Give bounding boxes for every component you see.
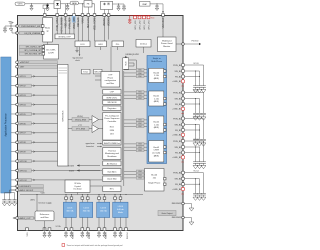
pin PGOOD — [176, 41, 201, 46]
pin label GPO3 — [144, 20, 146, 30]
svg-text:Mode: Mode — [118, 212, 124, 214]
wire osc outputs — [76, 47, 81, 56]
pin FB_B0 — [175, 75, 184, 78]
wire clock to phase box — [95, 47, 111, 80]
svg-text:PLDO2: PLDO2 — [89, 231, 91, 239]
block power sequence controller — [103, 113, 121, 141]
capacitor CB2 — [7, 193, 12, 206]
block seq mux — [123, 56, 129, 70]
block OTP — [103, 90, 121, 95]
svg-text:SW_B3: SW_B3 — [175, 147, 183, 149]
pin label PVIN_SNVS — [57, 17, 59, 30]
red test pin TP2 — [138, 15, 141, 18]
svg-text:PVIN_B0: PVIN_B0 — [173, 65, 182, 67]
pin GND_B4 red — [172, 187, 185, 195]
capacitor COUT_B2a — [193, 136, 198, 146]
block NVM OTP — [55, 34, 75, 39]
svg-text:300 mA: 300 mA — [66, 209, 74, 212]
red test pin TP3 — [143, 15, 146, 18]
node VBACKUP box — [140, 2, 151, 7]
svg-text:PLDO1: PLDO1 — [73, 231, 75, 239]
TVS diode D1 — [46, 4, 49, 11]
pin label VBACKUP — [162, 17, 165, 28]
svg-text:LDO1: LDO1 — [67, 207, 73, 209]
pin label VDD_CORE — [94, 17, 96, 30]
svg-text:REFCAP: REFCAP — [77, 17, 80, 27]
svg-text:EN3: EN3 — [139, 147, 142, 149]
svg-text:XI32K: XI32K — [69, 170, 75, 172]
svg-text:Gain ADC: Gain ADC — [107, 170, 117, 173]
wire internal supply rail — [20, 194, 143, 195]
pins below LDO4 — [114, 218, 128, 231]
pins above LDO2 — [81, 195, 89, 203]
pin REFGND1 — [172, 202, 194, 211]
svg-text:(INT): (INT) — [30, 199, 35, 201]
svg-text:EN2: EN2 — [139, 126, 142, 128]
control strips group 0 — [124, 68, 147, 78]
svg-text:Application Processor: Application Processor — [4, 113, 7, 136]
svg-text:LDO2: LDO2 — [84, 207, 90, 209]
wire FB_B4 sense — [185, 184, 200, 185]
highlighted strip VDDA_1P8 — [72, 16, 76, 23]
pin GND_B1 red — [172, 107, 185, 115]
svg-text:EN/SEQ/LGPIO: EN/SEQ/LGPIO — [126, 54, 140, 56]
capacitor COUT_B0b — [197, 83, 202, 93]
svg-text:EN0: EN0 — [139, 70, 142, 72]
load switch box with diode — [54, 1, 61, 9]
pin SPI_CLK/SDA_SP — [20, 49, 45, 53]
block HFO osc — [95, 41, 107, 47]
svg-text:PVIN_B1: PVIN_B1 — [173, 92, 182, 94]
block wideband power good monitor — [158, 37, 177, 52]
pin PWRON/RESET_MR — [16, 24, 44, 28]
svg-text:VCC0: VCC0 — [193, 63, 199, 65]
pin label LDO2 out — [89, 231, 91, 239]
label EN SEQ — [126, 54, 140, 56]
svg-text:1.1 A: 1.1 A — [154, 74, 159, 77]
capacitor C7 — [3, 25, 11, 32]
wire FB_B0 sense — [185, 76, 200, 77]
pin SW_B1 — [175, 97, 185, 100]
svg-text:Buck1: Buck1 — [154, 96, 160, 98]
block Buck2 — [149, 116, 164, 133]
capacitor CIN_B3 — [201, 159, 206, 169]
svg-text:(AVS): (AVS) — [154, 100, 160, 103]
capacitor COUT_B0a — [193, 83, 198, 93]
svg-text:GPIO2: GPIO2 — [20, 86, 27, 88]
pin SW_B0 — [175, 70, 185, 73]
svg-text:32 kHz: 32 kHz — [74, 183, 80, 185]
svg-text:(to multi): (to multi) — [152, 151, 160, 154]
node VCC0 — [185, 63, 204, 83]
red test cap — [128, 20, 131, 24]
wire FB_B1 sense — [185, 103, 200, 104]
pin nINT — [16, 65, 58, 69]
wire SW_B2 output — [185, 124, 200, 136]
node VCC3 — [185, 139, 204, 159]
pin FB_B3 — [175, 151, 184, 154]
svg-text:Registers: Registers — [108, 107, 117, 110]
svg-text:& SPI: & SPI — [48, 53, 54, 55]
pin PVIN_SNVS — [56, 14, 59, 17]
pin GPIO10 — [11, 159, 58, 163]
block OTP phase configuration mux — [101, 72, 120, 88]
svg-text:GPIO12: GPIO12 — [20, 180, 28, 182]
svg-text:PVIN_B3: PVIN_B3 — [173, 141, 182, 143]
svg-text:VCCA: VCCA — [56, 225, 62, 228]
svg-text:Reference: Reference — [40, 213, 50, 216]
svg-text:1.1 A: 1.1 A — [154, 123, 159, 126]
svg-text:HFO: HFO — [98, 44, 103, 46]
svg-text:VSS: VSS — [27, 232, 29, 237]
label internal supply — [38, 201, 51, 204]
ferrite bead box — [84, 1, 92, 7]
wire osc to rtc — [78, 186, 103, 195]
svg-text:+GND_B4: +GND_B4 — [172, 189, 182, 191]
pin FB_B4 — [175, 183, 184, 186]
svg-text:GPIO3: GPIO3 — [20, 95, 27, 97]
block I2C control — [44, 45, 59, 60]
svg-text:Thermal: Thermal — [108, 149, 116, 152]
block gate output — [158, 211, 176, 216]
svg-text:upper/wrm: upper/wrm — [86, 142, 95, 145]
pins above LDO1 — [65, 195, 73, 203]
block Buck4 single phase — [145, 169, 165, 192]
svg-text:EN_PB_VSENSE: EN_PB_VSENSE — [25, 33, 41, 35]
buffer VTT — [68, 125, 103, 133]
svg-text:PGOOD: PGOOD — [191, 41, 199, 43]
svg-text:Clock Mon: Clock Mon — [107, 179, 118, 181]
svg-text:Wake: Wake — [45, 28, 51, 30]
pin GPIO1 — [11, 75, 58, 79]
pin label VDDIO2 — [109, 17, 111, 26]
capacitor CIN_B1 — [201, 110, 206, 120]
svg-text:GPO_LS4: GPO_LS4 — [148, 20, 150, 30]
svg-text:GPIO1: GPIO1 — [20, 76, 27, 78]
svg-text:VANA: VANA — [81, 17, 84, 24]
svg-text:VTT_SNS: VTT_SNS — [76, 129, 86, 131]
svg-text:NVM CNTL: NVM CNTL — [107, 98, 118, 100]
svg-text:VSYS: VSYS — [18, 4, 24, 6]
svg-text:PVIN_B2: PVIN_B2 — [173, 118, 182, 120]
pin GPIO12 — [11, 178, 102, 182]
svg-text:SHUTDOWN Det: SHUTDOWN Det — [104, 142, 120, 145]
wire demux down — [143, 47, 145, 53]
pins below LDO3 — [98, 218, 106, 231]
label internal clock — [72, 57, 83, 62]
capacitor COUT_B3b — [197, 159, 202, 169]
svg-text:EN4: EN4 — [139, 178, 142, 180]
svg-text:Buck4: Buck4 — [151, 175, 158, 177]
label VCCA bottom — [56, 225, 62, 228]
svg-text:clock: clock — [75, 60, 80, 62]
pin label GPO4 — [148, 20, 150, 30]
svg-text:FB_B3: FB_B3 — [175, 152, 182, 154]
svg-text:+GND_B1: +GND_B1 — [172, 109, 182, 111]
svg-text:GPIO MUX: GPIO MUX — [62, 110, 64, 121]
block WDOG — [94, 69, 103, 74]
pin EN2_WKUP1 — [11, 185, 43, 189]
svg-text:Phase: Phase — [107, 77, 114, 79]
svg-text:+GND_B0: +GND_B0 — [172, 81, 182, 83]
svg-text:Internal supply: Internal supply — [38, 201, 51, 204]
capacitor COUT_B4b — [197, 191, 202, 201]
block thermal monitoring — [103, 148, 121, 160]
wire top pin stubs — [57, 17, 163, 42]
svg-text:VANA: VANA — [72, 2, 78, 5]
svg-text:and Mux: and Mux — [106, 83, 114, 85]
svg-text:VDDA_1P8: VDDA_1P8 — [73, 17, 76, 29]
svg-text:FSM: FSM — [110, 130, 115, 132]
svg-text:EN2: EN2 — [139, 120, 142, 122]
svg-text:EN4: EN4 — [139, 171, 142, 173]
pin label VDDIO1 — [104, 17, 106, 26]
block clock monitor — [103, 176, 121, 182]
capacitor COUT_B2b — [197, 136, 202, 146]
pin label REFCAP — [77, 17, 80, 27]
wire VBAT rail — [150, 3, 164, 13]
block Buck0 — [149, 68, 164, 82]
capacitor COUT_B1b — [197, 110, 202, 120]
capacitor COUT_B3a — [193, 159, 198, 169]
pin VDDA_1P8 — [81, 14, 84, 17]
svg-text:GPIO9: GPIO9 — [20, 152, 27, 154]
control strips group 2 — [124, 119, 147, 129]
svg-text:AD Monitor: AD Monitor — [107, 162, 118, 165]
svg-text:SW_B4: SW_B4 — [175, 179, 183, 181]
red test pin TP4 — [147, 15, 150, 18]
svg-text:XO32K: XO32K — [68, 165, 75, 167]
control strips group 3 — [124, 143, 147, 153]
wire SW_B4 output — [185, 178, 200, 190]
wire FB_B3 sense — [185, 152, 200, 153]
svg-text:+GND_B2: +GND_B2 — [172, 135, 182, 137]
pin GPIO3 — [11, 94, 58, 98]
svg-text:VDD: VDD — [41, 193, 46, 195]
pin SW_B3 — [175, 146, 185, 149]
pin PVIN_B2 — [173, 117, 184, 120]
block LDO4 — [113, 202, 128, 217]
pin GND_B0 red — [172, 80, 185, 88]
capacitor CB1 — [2, 193, 7, 206]
svg-text:GPIO10: GPIO10 — [20, 161, 28, 163]
svg-text:REFGND1: REFGND1 — [172, 203, 182, 205]
output caps LDO2 — [81, 231, 90, 238]
svg-text:Timer: Timer — [83, 72, 88, 74]
svg-text:GPIO8: GPIO8 — [20, 142, 27, 144]
svg-text:lower/set: lower/set — [86, 145, 94, 148]
svg-text:PLDO3: PLDO3 — [106, 231, 108, 239]
svg-text:VCC2: VCC2 — [193, 116, 199, 118]
pin label GPO2 — [139, 20, 141, 30]
svg-text:Wideband: Wideband — [162, 40, 172, 42]
svg-text:Shutdown: Shutdown — [107, 155, 117, 158]
pin SW_B4 — [175, 177, 185, 180]
pin VDD_1P8 — [64, 14, 67, 17]
svg-text:VCC3: VCC3 — [193, 139, 199, 141]
svg-text:FB_B1: FB_B1 — [175, 104, 182, 106]
caption note — [62, 244, 122, 247]
svg-text:(AVS): (AVS) — [154, 77, 160, 80]
svg-text:EN2: EN2 — [139, 123, 142, 125]
svg-text:FB_B4: FB_B4 — [175, 184, 182, 186]
pin label VANA — [81, 17, 84, 24]
block Registers — [103, 106, 121, 111]
svg-text:LFO: LFO — [80, 44, 85, 46]
svg-text:DIG: DIG — [110, 134, 114, 136]
red label test pins — [151, 16, 155, 19]
capacitor CB3 — [12, 193, 17, 206]
svg-text:VCC1: VCC1 — [193, 90, 199, 92]
output caps LDO3 — [97, 231, 106, 238]
wire PLL out — [101, 47, 118, 50]
wire control bus pair — [122, 70, 124, 187]
svg-text:ECO: ECO — [110, 126, 115, 128]
capacitor C2 — [66, 4, 69, 11]
pin REFCAP2 — [87, 14, 90, 17]
pin GPIO7 — [11, 131, 58, 135]
svg-text:Oscillator: Oscillator — [73, 188, 82, 191]
svg-text:Crystal: Crystal — [74, 185, 81, 188]
svg-text:FB_B2: FB_B2 — [175, 130, 182, 132]
capacitor C5 — [155, 4, 158, 11]
svg-text:Controller: Controller — [108, 120, 117, 123]
wire wakeup to i2c — [47, 42, 49, 45]
label VDD — [30, 193, 45, 211]
svg-text:SW_B0: SW_B0 — [175, 71, 183, 73]
pin PVIN_B4 — [173, 171, 184, 174]
pin GND_B2 red — [172, 133, 185, 141]
pin FB_B2 — [175, 129, 184, 132]
svg-text:150 mA: 150 mA — [100, 209, 108, 212]
svg-text:NVM & OTP: NVM & OTP — [59, 37, 72, 39]
svg-text:VCC4: VCC4 — [193, 171, 199, 173]
svg-text:(AVS): (AVS) — [154, 154, 160, 157]
svg-text:VDDQ_SNS: VDDQ_SNS — [75, 119, 87, 121]
svg-text:sns: sns — [181, 162, 184, 164]
svg-text:LDO3: LDO3 — [101, 207, 107, 209]
wire VSYS rail — [25, 3, 95, 4]
svg-text:PWRON/RESET_MR: PWRON/RESET_MR — [21, 26, 41, 28]
pin GPIO2 — [11, 84, 58, 88]
pin GPIO6 — [11, 122, 58, 126]
block ADC monitor — [103, 161, 121, 166]
block GPIO MUX — [58, 64, 69, 166]
svg-text:EN0: EN0 — [139, 76, 142, 78]
pin PVIN_LDO — [73, 14, 76, 17]
pin PVIN_B1 — [173, 91, 184, 94]
svg-text:VBACKUP: VBACKUP — [162, 17, 165, 28]
svg-text:Gate Output: Gate Output — [162, 212, 173, 215]
svg-text:OTP: OTP — [108, 75, 113, 77]
pin label GPO1 — [135, 20, 137, 30]
svg-text:AMUX_OUT: AMUX_OUT — [20, 217, 32, 220]
svg-text:PLDO4: PLDO4 — [127, 231, 129, 239]
svg-text:GPIO11: GPIO11 — [20, 170, 28, 172]
block wake-up control — [43, 18, 53, 43]
block LDO2 — [80, 202, 93, 217]
svg-text:Demux: Demux — [140, 43, 148, 45]
svg-text:EN2/WKUP1: EN2/WKUP1 — [20, 186, 32, 188]
svg-text:Multi-Phase: Multi-Phase — [151, 60, 162, 63]
svg-text:1.1 A: 1.1 A — [154, 97, 159, 100]
capacitor CIN_B4 — [201, 191, 206, 201]
capacitor C1 — [30, 4, 33, 11]
svg-text:GPIO4: GPIO4 — [20, 104, 27, 106]
svg-text:GPO_LS1: GPO_LS1 — [135, 20, 137, 30]
wire EN sense — [12, 29, 17, 33]
svg-text:CNTR: CNTR — [154, 150, 160, 152]
label warm reset — [86, 142, 102, 148]
pin GPIO11 — [11, 169, 102, 173]
block RTC timer — [82, 69, 91, 74]
wire mux to strips — [129, 60, 137, 68]
block multi-phase buck group — [147, 56, 167, 164]
svg-text:sns: sns — [181, 113, 184, 115]
svg-text:configuration: configuration — [105, 79, 116, 82]
svg-text:Power Good: Power Good — [161, 42, 173, 45]
wire drops to top pins — [66, 4, 83, 14]
svg-text:GPO_LS3: GPO_LS3 — [144, 20, 146, 30]
output caps LDO1 — [64, 231, 73, 238]
svg-text:and Bias: and Bias — [40, 217, 48, 219]
wire — [88, 4, 94, 14]
pin label REFCAP2 — [87, 17, 90, 28]
svg-text:Single Phase: Single Phase — [148, 182, 161, 184]
control strips group 1 — [124, 91, 147, 101]
wire FB_B2 sense — [185, 129, 200, 130]
svg-text:4 A Ldo: 4 A Ldo — [117, 208, 125, 211]
pin AMUX_OUT — [13, 216, 35, 220]
block PLL — [112, 41, 124, 47]
buffer VDDQ — [68, 116, 103, 124]
capacitor CIN_B0 — [201, 83, 206, 93]
svg-text:EN4: EN4 — [139, 174, 142, 176]
svg-text:EN1: EN1 — [139, 92, 142, 94]
pins above LDO3 — [98, 195, 106, 203]
block LDO3 — [97, 202, 110, 217]
capacitor COUT_B4a — [193, 191, 198, 201]
PMIC chip body U1 — [18, 16, 184, 231]
pin label LDO4 out — [127, 231, 129, 239]
pin AGND — [43, 221, 46, 238]
pin EN_PB_VSENSE — [16, 31, 44, 35]
svg-text:Buck2: Buck2 — [154, 122, 160, 124]
wire XTAL in arrow — [68, 164, 100, 167]
svg-text:PVIN_B4: PVIN_B4 — [173, 173, 182, 175]
wire backup caps — [14, 185, 17, 187]
pin PVIN_B3 — [173, 140, 184, 143]
capacitor COUT_B1a — [193, 110, 198, 120]
svg-text:sns: sns — [181, 86, 184, 88]
wire XTAL out arrow — [69, 169, 100, 172]
pin PVIN_B0 — [173, 64, 184, 67]
wire container squares B0 — [164, 70, 166, 78]
svg-text:EN0: EN0 — [139, 73, 142, 75]
wire VDDIO drops — [104, 3, 124, 13]
pin label VDDA_1P8 — [73, 17, 76, 29]
pin SPI_CS/SCL_SP — [20, 45, 45, 49]
svg-text:WDOG: WDOG — [94, 72, 101, 74]
pin GPIO4 — [11, 103, 58, 107]
svg-text:FB_B0: FB_B0 — [175, 76, 182, 78]
block Buck3 — [149, 141, 164, 163]
wire cap tops — [5, 190, 16, 193]
capacitor C3 — [117, 4, 120, 11]
svg-text:GPIO5: GPIO5 — [20, 114, 27, 116]
block Buck1 — [149, 91, 164, 106]
pin VDDIO2 — [107, 14, 110, 17]
